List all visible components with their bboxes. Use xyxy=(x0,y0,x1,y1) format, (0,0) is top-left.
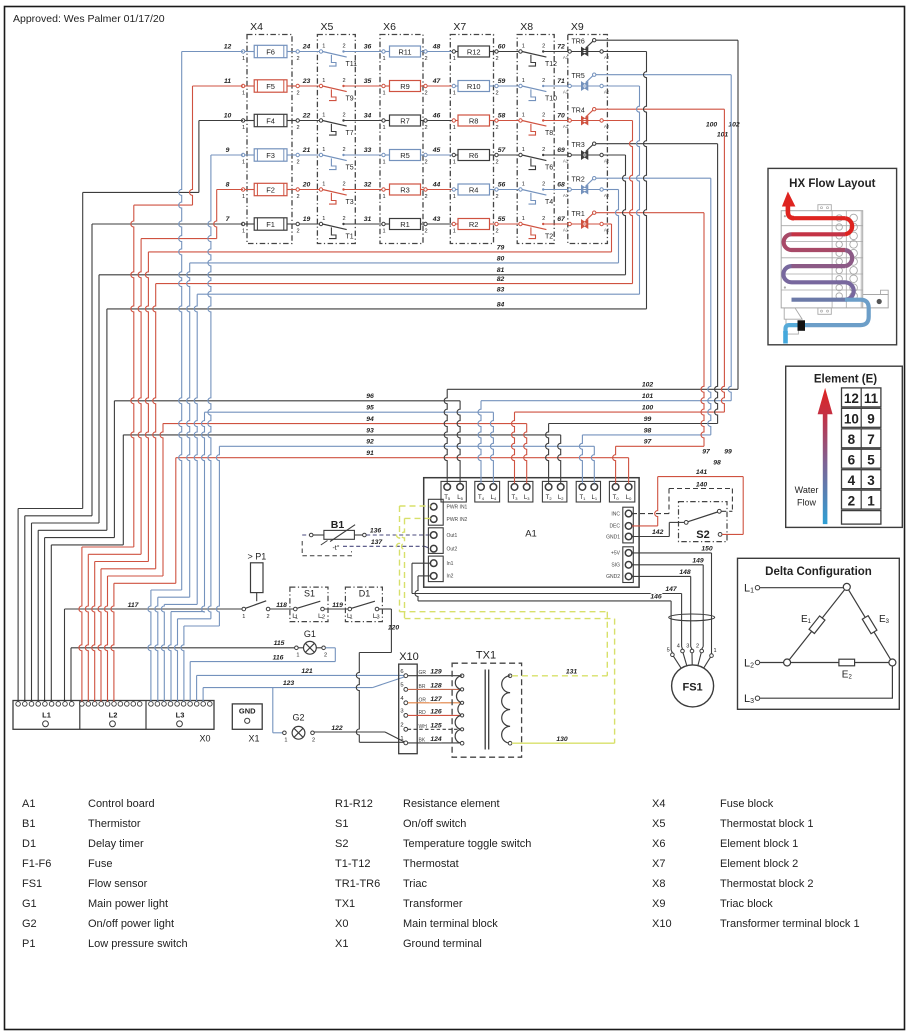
A2 riser of TR5 xyxy=(637,86,640,294)
A1 terminal pair T3/L3 xyxy=(508,481,533,502)
svg-text:10: 10 xyxy=(844,412,859,427)
svg-text:55: 55 xyxy=(498,216,506,223)
svg-text:56: 56 xyxy=(498,182,506,189)
flow sensor FS1 xyxy=(710,654,714,658)
delta edges xyxy=(787,587,892,663)
svg-text:142: 142 xyxy=(652,529,664,536)
TX1 core xyxy=(485,670,489,750)
svg-text:F6: F6 xyxy=(266,47,275,56)
svg-text:Main terminal block: Main terminal block xyxy=(403,918,498,930)
svg-text:Transformer: Transformer xyxy=(403,898,463,910)
svg-text:Transformer terminal block 1: Transformer terminal block 1 xyxy=(720,918,860,930)
A2 wire of TR2 / wire 80 xyxy=(603,189,618,191)
wire 83 run to X0 xyxy=(164,603,197,605)
svg-text:FS1: FS1 xyxy=(22,878,42,890)
svg-text:131: 131 xyxy=(566,668,578,675)
thermostat T6 xyxy=(519,153,522,156)
svg-text:X0: X0 xyxy=(335,918,348,930)
wire 121 to X0 L3 xyxy=(196,675,198,701)
svg-text:44: 44 xyxy=(432,182,441,189)
wire 149 xyxy=(632,564,703,566)
temperature probe symbol xyxy=(321,541,328,546)
wire 96 drop to A1 L-pin xyxy=(457,401,460,484)
svg-text:Element (E): Element (E) xyxy=(814,374,877,386)
svg-text:2: 2 xyxy=(296,228,299,234)
A1 left connector In xyxy=(428,556,443,582)
TX1 secondary winding xyxy=(508,674,512,678)
X10 pin 2 (WH) / wire 125 xyxy=(404,727,408,731)
svg-text:120: 120 xyxy=(388,625,400,632)
A2 riser of TR3 xyxy=(623,155,626,275)
svg-text:TR4: TR4 xyxy=(572,107,585,114)
svg-text:3: 3 xyxy=(867,473,875,488)
svg-text:2: 2 xyxy=(542,78,545,84)
svg-text:34: 34 xyxy=(364,113,372,120)
wire 22 xyxy=(299,120,319,122)
fuse F3 xyxy=(241,153,244,156)
wire 46 xyxy=(427,120,454,122)
svg-text:B1: B1 xyxy=(22,818,35,830)
svg-text:43: 43 xyxy=(432,216,441,223)
svg-text:L1: L1 xyxy=(42,711,51,720)
svg-text:1: 1 xyxy=(522,113,525,119)
svg-text:A1: A1 xyxy=(563,228,569,233)
svg-text:X7: X7 xyxy=(652,858,665,870)
svg-text:T3: T3 xyxy=(346,199,354,206)
svg-text:F1: F1 xyxy=(266,220,275,229)
wire 141 (red) xyxy=(632,525,658,527)
A1 terminal pair T0/L0 xyxy=(609,481,634,502)
resistor R4 xyxy=(452,188,455,191)
delta vertex nodes xyxy=(843,583,850,590)
svg-text:1: 1 xyxy=(382,90,385,96)
svg-text:L5: L5 xyxy=(457,495,463,501)
svg-text:100: 100 xyxy=(706,122,718,129)
svg-text:12: 12 xyxy=(844,391,859,406)
svg-text:2: 2 xyxy=(696,644,699,650)
svg-text:S1: S1 xyxy=(304,589,315,599)
svg-text:147: 147 xyxy=(665,586,678,593)
svg-text:1: 1 xyxy=(453,228,456,234)
svg-text:1: 1 xyxy=(453,194,456,200)
wire 96 run to X0 xyxy=(45,537,115,539)
wire 83 xyxy=(197,293,639,295)
wire 59 xyxy=(498,85,520,87)
svg-text:1: 1 xyxy=(453,159,456,165)
A2 riser of TR6 xyxy=(644,52,647,309)
svg-text:6: 6 xyxy=(400,669,403,675)
svg-text:X10: X10 xyxy=(652,918,672,930)
A2 riser of TR2 xyxy=(616,190,619,263)
svg-text:2: 2 xyxy=(495,90,498,96)
svg-text:59: 59 xyxy=(498,78,506,85)
svg-text:F2: F2 xyxy=(266,185,275,194)
svg-text:T8: T8 xyxy=(545,130,553,137)
svg-text:A2: A2 xyxy=(604,193,610,198)
wire 130 (PWR IN2 loop, yellow-green) xyxy=(405,517,431,519)
svg-text:T3: T3 xyxy=(512,495,519,501)
X10 pin 5 (BR) / wire 128 xyxy=(404,688,408,692)
wire 99 drop to A1 T-pin xyxy=(546,424,549,484)
svg-text:D1: D1 xyxy=(359,589,371,599)
thermostat T1 xyxy=(319,222,322,225)
svg-text:1: 1 xyxy=(322,78,325,84)
svg-text:20: 20 xyxy=(302,182,311,189)
svg-text:X4: X4 xyxy=(652,798,665,810)
resistor R8 xyxy=(452,119,455,122)
svg-text:102: 102 xyxy=(642,382,654,389)
svg-text:R7: R7 xyxy=(400,116,410,125)
svg-text:G2: G2 xyxy=(292,713,304,723)
svg-text:X5: X5 xyxy=(320,21,333,33)
wire 80 xyxy=(190,262,619,264)
A2 wire of TR5 / wire 83 xyxy=(603,85,639,87)
svg-text:X1: X1 xyxy=(248,734,259,744)
svg-text:GND1: GND1 xyxy=(606,534,620,540)
thermostat T7 xyxy=(319,119,322,122)
svg-text:2: 2 xyxy=(324,653,327,659)
wire 93 drop to A1 L-pin xyxy=(558,435,561,484)
wire 97 drop to A1 T-pin xyxy=(613,446,616,483)
svg-text:21: 21 xyxy=(302,147,311,154)
gate wire of TR5 / wire 101 xyxy=(586,76,593,83)
svg-text:R9: R9 xyxy=(400,82,410,91)
svg-text:L1: L1 xyxy=(592,495,598,501)
svg-text:Delta Configuration: Delta Configuration xyxy=(765,566,872,578)
wire 94 drop to A1 L-pin xyxy=(524,424,527,484)
wire 150 xyxy=(632,552,712,554)
wire 67 xyxy=(543,223,568,225)
svg-text:2: 2 xyxy=(495,159,498,165)
wire 57 xyxy=(498,154,520,156)
svg-text:129: 129 xyxy=(430,669,442,676)
svg-text:2: 2 xyxy=(542,216,545,222)
svg-text:1: 1 xyxy=(242,125,245,131)
svg-text:Flow sensor: Flow sensor xyxy=(88,878,148,890)
wire 72 xyxy=(543,51,568,53)
svg-text:36: 36 xyxy=(364,44,372,51)
svg-text:84: 84 xyxy=(497,301,505,308)
svg-text:2: 2 xyxy=(424,125,427,131)
svg-text:TX1: TX1 xyxy=(335,898,355,910)
X10 pin 4 (OR) / wire 127 xyxy=(404,701,408,705)
svg-text:> P1: > P1 xyxy=(248,552,267,562)
svg-text:121: 121 xyxy=(301,668,313,675)
wire 93 run to X0 xyxy=(51,544,123,546)
svg-text:2: 2 xyxy=(267,614,270,620)
svg-text:R2: R2 xyxy=(469,220,479,229)
svg-text:1: 1 xyxy=(322,216,325,222)
wire 45 xyxy=(427,154,454,156)
wire 137 xyxy=(343,545,425,547)
svg-text:35: 35 xyxy=(364,78,372,85)
svg-text:1: 1 xyxy=(242,228,245,234)
svg-text:Approved: Wes Palmer 01/17/20: Approved: Wes Palmer 01/17/20 xyxy=(13,13,165,25)
svg-text:2: 2 xyxy=(400,723,403,729)
svg-text:68: 68 xyxy=(557,182,565,189)
svg-text:57: 57 xyxy=(498,147,507,154)
wire 48 xyxy=(427,51,454,53)
svg-text:93: 93 xyxy=(366,427,374,434)
B1 probe dashed outline xyxy=(302,541,351,556)
wire 117 xyxy=(65,608,243,610)
svg-text:Thermostat block 1: Thermostat block 1 xyxy=(720,818,814,830)
svg-text:2: 2 xyxy=(424,90,427,96)
svg-text:1: 1 xyxy=(382,194,385,200)
resistor R3 xyxy=(382,188,385,191)
svg-text:116: 116 xyxy=(273,654,284,661)
svg-text:2: 2 xyxy=(296,56,299,62)
wire 115 xyxy=(71,647,295,649)
X10 pin 3 (RD) / wire 126 xyxy=(404,714,408,718)
wire 93 xyxy=(123,434,560,436)
svg-text:L2: L2 xyxy=(558,495,564,501)
A2 wire of TR6 / wire 84 xyxy=(603,51,646,53)
fuse F4 xyxy=(241,119,244,122)
svg-text:1: 1 xyxy=(242,56,245,62)
wire 21 xyxy=(299,154,319,156)
element E1 xyxy=(809,616,825,634)
svg-text:148: 148 xyxy=(679,569,691,576)
triac TR2 xyxy=(568,188,571,191)
wire 116 xyxy=(325,647,335,649)
svg-text:D1: D1 xyxy=(22,838,36,850)
svg-text:101: 101 xyxy=(717,132,729,139)
wire 92 run to X0 xyxy=(184,625,220,627)
wire 120 xyxy=(379,608,392,610)
svg-text:R10: R10 xyxy=(467,82,481,91)
svg-text:F1-F6: F1-F6 xyxy=(22,858,51,870)
svg-text:R5: R5 xyxy=(400,151,410,160)
wire 69 xyxy=(543,154,568,156)
wire 91 xyxy=(176,457,629,459)
svg-text:1: 1 xyxy=(322,113,325,119)
svg-text:Thermistor: Thermistor xyxy=(88,818,141,830)
A1 terminal pair T2/L2 xyxy=(542,481,567,502)
X10 pin 1 (BK) / wire 124 xyxy=(404,741,408,745)
wire 100 drop to A1 T-pin xyxy=(512,412,515,483)
svg-text:96: 96 xyxy=(366,393,374,400)
svg-text:3: 3 xyxy=(400,709,403,715)
svg-text:1: 1 xyxy=(242,159,245,165)
A1 terminal pair T4/L4 xyxy=(475,481,500,502)
svg-text:X7: X7 xyxy=(453,21,466,33)
svg-text:1: 1 xyxy=(296,653,299,659)
svg-text:1: 1 xyxy=(867,493,875,508)
svg-text:R8: R8 xyxy=(469,116,479,125)
wire 11 run to X0 xyxy=(193,85,244,87)
thermostat T12 xyxy=(519,50,522,53)
wire 123 xyxy=(203,687,372,689)
svg-text:67: 67 xyxy=(557,216,566,223)
svg-text:140: 140 xyxy=(696,481,708,488)
svg-text:TR6: TR6 xyxy=(572,38,585,45)
gate riser of TR2 xyxy=(708,178,711,435)
svg-text:149: 149 xyxy=(692,557,704,564)
resistor R5 xyxy=(382,153,385,156)
svg-text:97: 97 xyxy=(702,449,711,456)
svg-text:In1: In1 xyxy=(447,561,454,567)
svg-text:99: 99 xyxy=(724,449,732,456)
triac TR5 xyxy=(568,84,571,87)
element E3 xyxy=(862,616,877,634)
wire 31 xyxy=(344,223,384,225)
svg-text:T1: T1 xyxy=(346,234,354,241)
wire 122 xyxy=(314,731,385,733)
svg-text:141: 141 xyxy=(696,469,708,476)
svg-text:2: 2 xyxy=(312,738,315,744)
svg-text:118: 118 xyxy=(276,602,287,609)
svg-text:2: 2 xyxy=(296,90,299,96)
svg-text:4: 4 xyxy=(848,473,856,488)
HX serpentine flow path xyxy=(782,192,796,207)
wire 58 xyxy=(498,120,520,122)
fuse F6 xyxy=(241,50,244,53)
A1 terminal pair T5/L5 xyxy=(441,481,466,502)
svg-text:T9: T9 xyxy=(346,96,354,103)
wire 96 xyxy=(114,400,460,402)
svg-text:23: 23 xyxy=(302,78,311,85)
Delta Configuration panel xyxy=(738,558,900,709)
wire 43 xyxy=(427,223,454,225)
wire 95 drop to A1 L-pin xyxy=(490,412,493,483)
wire 119 xyxy=(324,608,350,610)
svg-text:2: 2 xyxy=(495,194,498,200)
gate wire of TR4 / wire 100 xyxy=(586,110,593,117)
svg-text:1: 1 xyxy=(322,44,325,50)
svg-text:T10: T10 xyxy=(545,96,557,103)
svg-text:T6: T6 xyxy=(545,165,553,172)
wire 142 xyxy=(632,536,669,538)
svg-text:T7: T7 xyxy=(346,130,354,137)
svg-text:125: 125 xyxy=(430,722,442,729)
svg-text:TR1-TR6: TR1-TR6 xyxy=(335,878,380,890)
svg-text:PWR IN2: PWR IN2 xyxy=(447,517,468,523)
svg-text:G1: G1 xyxy=(304,629,316,639)
svg-text:82: 82 xyxy=(497,276,505,283)
svg-text:58: 58 xyxy=(498,113,506,120)
svg-text:127: 127 xyxy=(430,696,443,703)
wire 123 to X0 L3 xyxy=(202,688,204,702)
wire 84 xyxy=(107,308,647,310)
wire 123 branch to G2 xyxy=(272,688,274,733)
svg-text:2: 2 xyxy=(495,228,498,234)
A2 riser of TR4 xyxy=(630,121,633,284)
wire 56 xyxy=(498,189,520,191)
svg-text:Fuse: Fuse xyxy=(88,858,112,870)
svg-text:T2: T2 xyxy=(545,234,553,241)
wire 44 xyxy=(427,189,454,191)
wire 9 run to X0 xyxy=(211,154,243,156)
wire 55 xyxy=(498,223,520,225)
svg-text:-t°: -t° xyxy=(332,544,339,552)
svg-text:P1: P1 xyxy=(22,938,35,950)
gate riser of TR6 xyxy=(737,40,739,389)
resistor R2 xyxy=(452,222,455,225)
svg-text:100: 100 xyxy=(642,405,654,412)
element number grid xyxy=(842,388,881,407)
wire 33 xyxy=(344,154,384,156)
svg-text:Out2: Out2 xyxy=(447,547,458,553)
svg-text:A1: A1 xyxy=(563,124,569,129)
svg-text:Fuse block: Fuse block xyxy=(720,798,774,810)
svg-text:R3: R3 xyxy=(400,185,410,194)
svg-text:69: 69 xyxy=(557,147,565,154)
wire 10 run to X0 xyxy=(199,120,243,122)
svg-text:Thermostat: Thermostat xyxy=(403,858,459,870)
svg-text:1: 1 xyxy=(453,56,456,62)
svg-text:94: 94 xyxy=(366,416,374,423)
thermostat T11 xyxy=(319,50,322,53)
wire 131 (PWR IN1 loop, dashed yellow-green) xyxy=(400,505,431,507)
svg-text:115: 115 xyxy=(274,640,285,647)
svg-text:11: 11 xyxy=(864,391,879,406)
svg-text:80: 80 xyxy=(497,255,505,262)
svg-text:S2: S2 xyxy=(335,838,348,850)
svg-text:9: 9 xyxy=(867,412,875,427)
svg-text:R1: R1 xyxy=(400,220,410,229)
A2 wire of TR3 / wire 81 xyxy=(603,154,625,156)
svg-text:32: 32 xyxy=(364,182,372,189)
svg-text:R1-R12: R1-R12 xyxy=(335,798,373,810)
svg-text:A1: A1 xyxy=(563,159,569,164)
svg-text:On/off switch: On/off switch xyxy=(403,818,466,830)
resistor R6 xyxy=(452,153,455,156)
svg-text:Temperature toggle switch: Temperature toggle switch xyxy=(403,838,531,850)
wire 147 from A1 In1 xyxy=(412,562,431,564)
svg-text:T0: T0 xyxy=(613,495,620,501)
svg-text:X8: X8 xyxy=(652,878,665,890)
svg-text:1: 1 xyxy=(713,648,716,654)
svg-text:GND2: GND2 xyxy=(606,574,620,580)
wire 79 run to X0 xyxy=(95,561,149,563)
svg-text:2: 2 xyxy=(848,493,856,508)
svg-text:1: 1 xyxy=(242,614,245,620)
triac TR4 xyxy=(568,119,571,122)
svg-text:A1: A1 xyxy=(22,798,35,810)
thermostat T2 xyxy=(519,222,522,225)
svg-text:TR1: TR1 xyxy=(572,211,585,218)
svg-text:97: 97 xyxy=(644,439,653,446)
thermostat T10 xyxy=(519,84,522,87)
svg-text:1: 1 xyxy=(522,147,525,153)
wire 70 xyxy=(543,120,568,122)
svg-text:3: 3 xyxy=(686,644,689,650)
svg-text:T2: T2 xyxy=(546,495,553,501)
wire 140 (dashed) xyxy=(632,513,669,515)
svg-text:1: 1 xyxy=(400,736,403,742)
svg-text:T12: T12 xyxy=(545,61,557,68)
svg-text:70: 70 xyxy=(557,113,565,120)
wire 136 xyxy=(366,534,430,536)
svg-text:2: 2 xyxy=(424,56,427,62)
svg-text:117: 117 xyxy=(128,602,140,609)
block box X8 xyxy=(517,35,554,244)
wire 91 drop to A1 L-pin xyxy=(628,458,630,484)
svg-text:X10: X10 xyxy=(399,651,419,663)
svg-text:5: 5 xyxy=(667,647,670,653)
svg-text:24: 24 xyxy=(302,44,311,51)
svg-text:2: 2 xyxy=(495,56,498,62)
svg-text:128: 128 xyxy=(430,682,442,689)
svg-text:F3: F3 xyxy=(266,151,275,160)
svg-text:R11: R11 xyxy=(398,47,411,56)
svg-text:1: 1 xyxy=(284,738,287,744)
wire 34 xyxy=(344,120,384,122)
resistor R10 xyxy=(452,84,455,87)
svg-text:X8: X8 xyxy=(520,21,533,33)
wire 121 xyxy=(197,674,402,676)
